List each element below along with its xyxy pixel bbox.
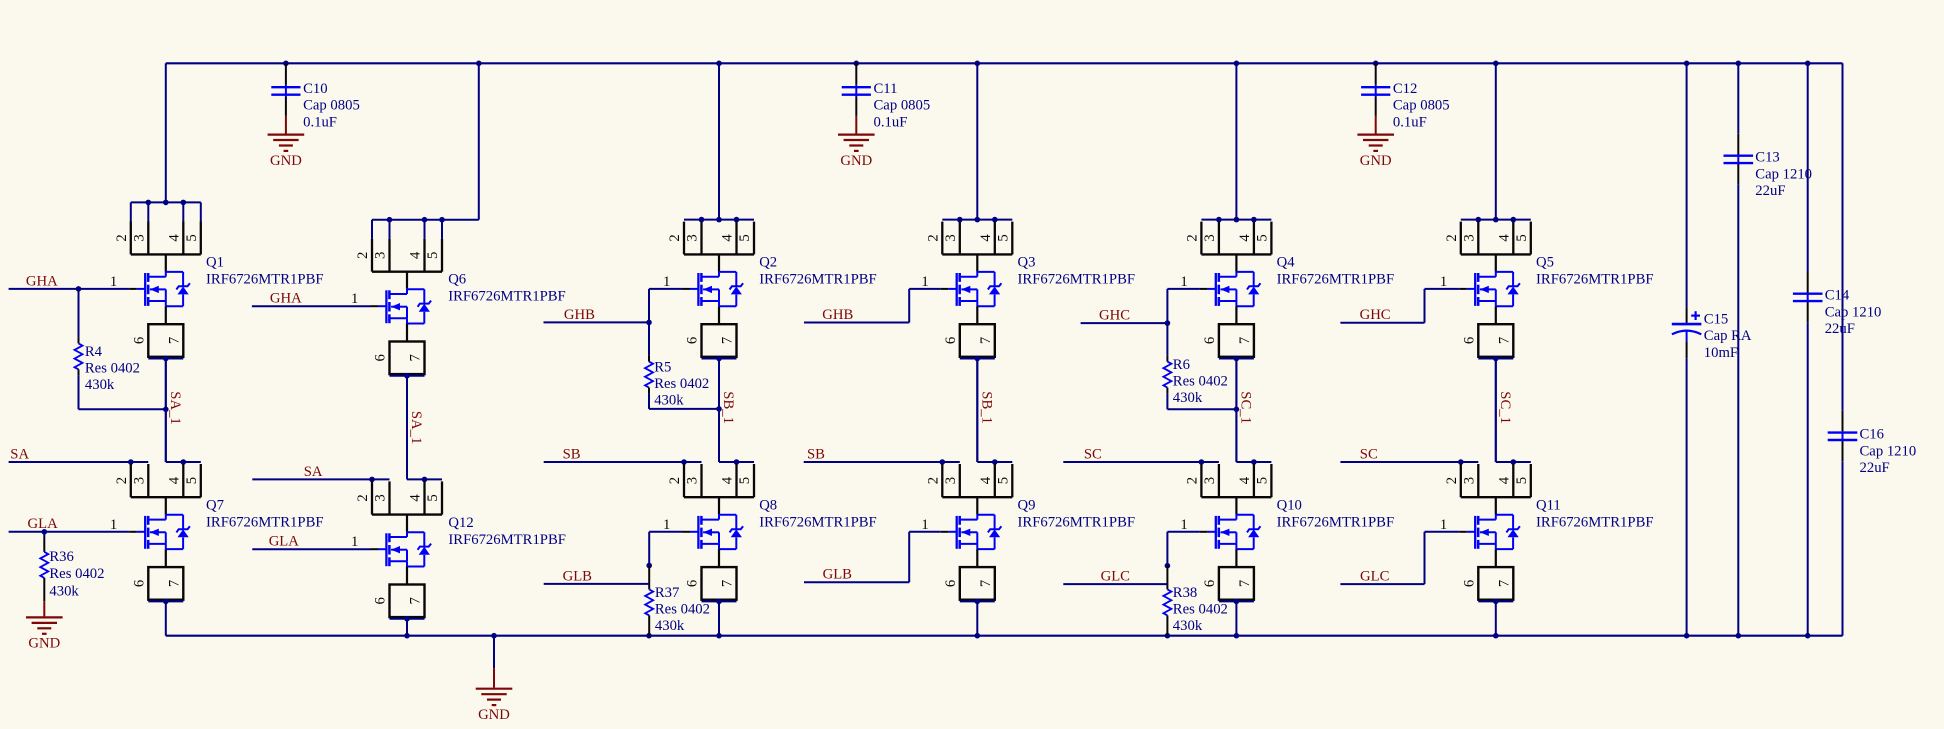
svg-text:5: 5 (184, 234, 200, 241)
svg-text:GND: GND (840, 153, 872, 169)
svg-text:IRF6726MTR1PBF: IRF6726MTR1PBF (448, 289, 566, 305)
svg-text:6: 6 (373, 597, 389, 604)
svg-text:2: 2 (1444, 477, 1460, 484)
svg-text:Cap 1210: Cap 1210 (1825, 304, 1882, 320)
svg-text:SC_1: SC_1 (1497, 391, 1513, 424)
svg-text:SA: SA (304, 464, 323, 480)
svg-text:2: 2 (925, 477, 941, 484)
svg-text:Q11: Q11 (1536, 497, 1561, 513)
svg-text:430k: 430k (1173, 618, 1203, 634)
svg-text:SC: SC (1360, 446, 1378, 462)
svg-text:6: 6 (943, 337, 959, 344)
svg-text:3: 3 (943, 234, 959, 241)
svg-text:430k: 430k (49, 583, 79, 599)
svg-text:C13: C13 (1755, 150, 1779, 166)
svg-text:4: 4 (408, 251, 424, 259)
svg-text:4: 4 (408, 494, 424, 502)
svg-text:GND: GND (28, 636, 60, 652)
svg-text:22uF: 22uF (1755, 183, 1785, 199)
svg-text:4: 4 (166, 476, 182, 484)
svg-text:GLB: GLB (563, 568, 593, 584)
svg-text:5: 5 (1514, 477, 1530, 484)
svg-text:4: 4 (166, 234, 182, 242)
svg-text:GND: GND (1360, 153, 1392, 169)
svg-text:5: 5 (995, 477, 1011, 484)
svg-text:SB: SB (563, 446, 581, 462)
svg-text:R37: R37 (655, 585, 679, 601)
svg-text:SA: SA (10, 446, 29, 462)
svg-text:5: 5 (737, 234, 753, 241)
svg-text:6: 6 (373, 354, 389, 361)
svg-text:7: 7 (1237, 580, 1253, 587)
svg-text:C12: C12 (1393, 81, 1417, 97)
svg-text:5: 5 (1514, 234, 1530, 241)
svg-text:1: 1 (663, 274, 670, 290)
svg-text:2: 2 (1444, 234, 1460, 241)
svg-text:1: 1 (110, 517, 117, 533)
svg-text:4: 4 (1496, 234, 1512, 242)
svg-text:IRF6726MTR1PBF: IRF6726MTR1PBF (759, 514, 877, 530)
svg-text:7: 7 (166, 580, 182, 587)
svg-text:3: 3 (1202, 477, 1218, 484)
svg-text:4: 4 (978, 234, 994, 242)
svg-text:GND: GND (270, 153, 302, 169)
svg-text:3: 3 (373, 494, 389, 501)
svg-text:4: 4 (720, 234, 736, 242)
svg-text:1: 1 (1440, 274, 1447, 290)
svg-text:R38: R38 (1173, 585, 1197, 601)
svg-text:3: 3 (1461, 234, 1477, 241)
svg-text:C10: C10 (303, 81, 327, 97)
svg-text:7: 7 (1496, 580, 1512, 587)
svg-text:IRF6726MTR1PBF: IRF6726MTR1PBF (206, 514, 324, 530)
svg-text:Q5: Q5 (1536, 254, 1554, 270)
svg-text:3: 3 (373, 252, 389, 259)
svg-text:7: 7 (720, 580, 736, 587)
svg-text:Q12: Q12 (448, 515, 473, 531)
svg-text:Q10: Q10 (1277, 497, 1302, 513)
svg-text:3: 3 (1202, 234, 1218, 241)
svg-text:1: 1 (351, 534, 358, 550)
svg-text:1: 1 (351, 291, 358, 307)
svg-text:2: 2 (925, 234, 941, 241)
svg-text:GHB: GHB (564, 307, 595, 323)
svg-text:Q1: Q1 (206, 254, 224, 270)
svg-text:7: 7 (408, 354, 424, 361)
svg-text:2: 2 (667, 477, 683, 484)
svg-text:5: 5 (1254, 477, 1270, 484)
svg-text:1: 1 (921, 517, 928, 533)
svg-text:GHC: GHC (1099, 308, 1130, 324)
svg-text:SB_1: SB_1 (979, 391, 995, 424)
svg-text:6: 6 (685, 337, 701, 344)
svg-text:10mF: 10mF (1704, 345, 1738, 361)
svg-text:SA_1: SA_1 (408, 411, 424, 444)
svg-text:6: 6 (1202, 580, 1218, 587)
svg-text:Res 0402: Res 0402 (85, 361, 140, 377)
svg-text:IRF6726MTR1PBF: IRF6726MTR1PBF (1536, 271, 1654, 287)
svg-text:4: 4 (1237, 476, 1253, 484)
svg-text:Res 0402: Res 0402 (655, 602, 710, 618)
svg-text:GND: GND (478, 707, 510, 723)
svg-text:Q3: Q3 (1018, 254, 1036, 270)
svg-text:4: 4 (1237, 234, 1253, 242)
svg-text:GHA: GHA (26, 273, 58, 289)
svg-text:R36: R36 (49, 549, 73, 565)
svg-text:IRF6726MTR1PBF: IRF6726MTR1PBF (1536, 514, 1654, 530)
svg-text:Q2: Q2 (759, 254, 777, 270)
svg-text:430k: 430k (654, 392, 684, 408)
svg-text:430k: 430k (655, 618, 685, 634)
svg-text:R6: R6 (1173, 357, 1190, 373)
svg-text:1: 1 (1440, 517, 1447, 533)
svg-text:4: 4 (978, 476, 994, 484)
svg-text:2: 2 (355, 494, 371, 501)
svg-text:2: 2 (355, 252, 371, 259)
svg-text:6: 6 (1202, 337, 1218, 344)
svg-text:0.1uF: 0.1uF (303, 114, 337, 130)
svg-text:IRF6726MTR1PBF: IRF6726MTR1PBF (1018, 514, 1136, 530)
svg-text:GHC: GHC (1360, 307, 1391, 323)
svg-text:6: 6 (131, 337, 147, 344)
svg-text:2: 2 (114, 477, 130, 484)
svg-text:3: 3 (131, 234, 147, 241)
svg-text:C16: C16 (1860, 427, 1884, 443)
svg-text:430k: 430k (85, 377, 115, 393)
svg-text:6: 6 (685, 580, 701, 587)
svg-text:1: 1 (663, 517, 670, 533)
svg-text:Q9: Q9 (1018, 497, 1036, 513)
svg-text:1: 1 (1180, 517, 1187, 533)
svg-text:IRF6726MTR1PBF: IRF6726MTR1PBF (448, 532, 566, 548)
svg-text:Res 0402: Res 0402 (654, 376, 709, 392)
svg-text:Cap 0805: Cap 0805 (303, 98, 360, 114)
svg-text:R4: R4 (85, 344, 103, 360)
svg-text:7: 7 (408, 597, 424, 604)
svg-text:GLA: GLA (269, 534, 300, 550)
svg-text:GHB: GHB (822, 307, 853, 323)
svg-text:1: 1 (1180, 274, 1187, 290)
svg-text:Res 0402: Res 0402 (1173, 374, 1228, 390)
svg-text:Cap 0805: Cap 0805 (874, 98, 931, 114)
svg-text:6: 6 (1461, 580, 1477, 587)
svg-text:C11: C11 (874, 81, 898, 97)
svg-text:0.1uF: 0.1uF (1393, 114, 1427, 130)
svg-text:3: 3 (1461, 477, 1477, 484)
svg-text:IRF6726MTR1PBF: IRF6726MTR1PBF (1018, 271, 1136, 287)
svg-text:C14: C14 (1825, 288, 1850, 304)
svg-text:7: 7 (978, 337, 994, 344)
svg-text:IRF6726MTR1PBF: IRF6726MTR1PBF (759, 271, 877, 287)
svg-text:SB_1: SB_1 (720, 391, 736, 424)
svg-text:7: 7 (978, 580, 994, 587)
svg-text:7: 7 (720, 337, 736, 344)
svg-text:2: 2 (1184, 477, 1200, 484)
svg-text:7: 7 (1496, 337, 1512, 344)
svg-text:GLC: GLC (1101, 569, 1130, 585)
svg-text:5: 5 (184, 477, 200, 484)
svg-text:Q8: Q8 (759, 497, 777, 513)
svg-text:SC: SC (1084, 446, 1102, 462)
svg-text:3: 3 (131, 477, 147, 484)
svg-text:2: 2 (114, 234, 130, 241)
svg-text:3: 3 (685, 477, 701, 484)
svg-text:Q7: Q7 (206, 497, 224, 513)
svg-text:22uF: 22uF (1825, 321, 1855, 337)
svg-text:3: 3 (943, 477, 959, 484)
svg-text:Cap 1210: Cap 1210 (1860, 443, 1917, 459)
svg-text:4: 4 (720, 476, 736, 484)
svg-text:2: 2 (1184, 234, 1200, 241)
svg-text:1: 1 (110, 274, 117, 290)
svg-text:430k: 430k (1173, 390, 1203, 406)
svg-text:5: 5 (425, 252, 441, 259)
svg-text:6: 6 (1461, 337, 1477, 344)
svg-text:2: 2 (667, 234, 683, 241)
svg-text:Cap 0805: Cap 0805 (1393, 98, 1450, 114)
svg-text:0.1uF: 0.1uF (874, 114, 908, 130)
svg-text:Q4: Q4 (1277, 254, 1296, 270)
svg-text:Q6: Q6 (448, 272, 466, 288)
svg-text:5: 5 (1254, 234, 1270, 241)
svg-text:IRF6726MTR1PBF: IRF6726MTR1PBF (206, 271, 324, 287)
svg-text:R5: R5 (654, 359, 671, 375)
svg-text:GLC: GLC (1360, 569, 1389, 585)
svg-text:SB: SB (807, 446, 825, 462)
svg-text:Res 0402: Res 0402 (49, 566, 104, 582)
svg-text:GHA: GHA (270, 291, 302, 307)
svg-text:Cap 1210: Cap 1210 (1755, 166, 1812, 182)
svg-text:6: 6 (943, 580, 959, 587)
svg-text:22uF: 22uF (1860, 460, 1890, 476)
svg-text:7: 7 (166, 337, 182, 344)
svg-text:4: 4 (1496, 476, 1512, 484)
svg-text:Cap RA: Cap RA (1704, 328, 1752, 344)
svg-text:C15: C15 (1704, 312, 1728, 328)
svg-text:SC_1: SC_1 (1238, 391, 1254, 424)
svg-text:GLB: GLB (823, 567, 853, 583)
svg-text:6: 6 (131, 580, 147, 587)
svg-text:1: 1 (921, 274, 928, 290)
svg-text:3: 3 (685, 234, 701, 241)
svg-text:7: 7 (1237, 337, 1253, 344)
svg-text:5: 5 (425, 494, 441, 501)
svg-text:5: 5 (737, 477, 753, 484)
svg-text:IRF6726MTR1PBF: IRF6726MTR1PBF (1277, 514, 1395, 530)
svg-text:IRF6726MTR1PBF: IRF6726MTR1PBF (1277, 271, 1395, 287)
svg-text:5: 5 (995, 234, 1011, 241)
svg-text:Res 0402: Res 0402 (1173, 602, 1228, 618)
svg-text:SA_1: SA_1 (167, 391, 183, 424)
